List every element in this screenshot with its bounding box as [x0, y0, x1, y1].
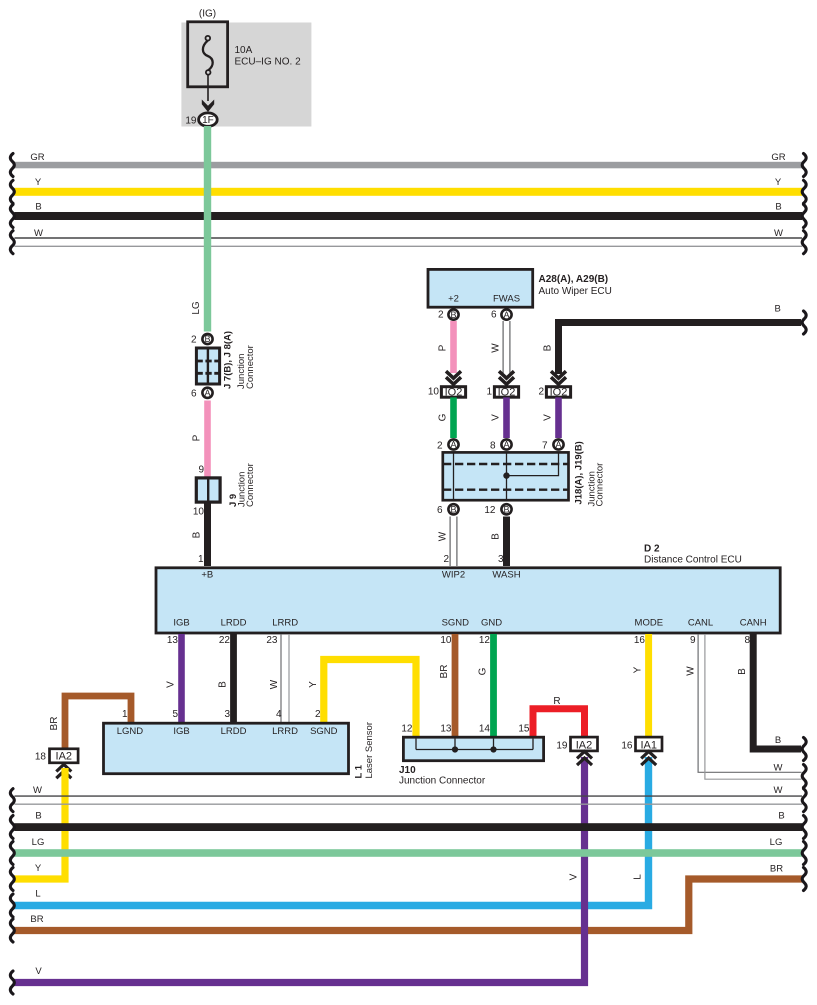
svg-text:B: B — [450, 505, 456, 515]
junction connector J9 — [196, 478, 220, 502]
svg-text:G: G — [478, 667, 489, 675]
wire V violet IGB to L1 — [178, 634, 185, 723]
svg-text:Y: Y — [308, 681, 319, 688]
svg-text:GND: GND — [481, 618, 502, 629]
svg-text:A28(A), A29(B): A28(A), A29(B) — [539, 274, 609, 285]
svg-text:Connector: Connector — [245, 345, 256, 389]
svg-text:A: A — [503, 310, 509, 320]
svg-text:B: B — [737, 668, 748, 675]
svg-text:A: A — [555, 440, 561, 450]
svg-text:LGND: LGND — [117, 726, 144, 737]
svg-text:2: 2 — [438, 309, 444, 320]
svg-text:W: W — [774, 228, 783, 239]
svg-text:B: B — [450, 310, 456, 320]
svg-text:3: 3 — [498, 554, 504, 565]
svg-text:13: 13 — [167, 635, 179, 646]
node B pin 2 (J7/J8 top) — [202, 334, 212, 344]
svg-text:+B: +B — [201, 570, 213, 581]
svg-text:W: W — [685, 666, 696, 676]
svg-text:BR: BR — [30, 914, 43, 925]
svg-text:L: L — [35, 889, 40, 900]
svg-text:Y: Y — [775, 177, 782, 188]
Auto Wiper ECU A28(A), A29(B) — [428, 269, 533, 307]
break symbols right bottom — [802, 789, 806, 891]
svg-text:10: 10 — [440, 635, 452, 646]
wire W white CANL to right break — [698, 634, 801, 772]
svg-text:19: 19 — [556, 741, 568, 752]
svg-text:B: B — [218, 681, 229, 688]
node B pin 12 — [501, 504, 511, 514]
svg-text:W: W — [269, 679, 280, 689]
break symbols left bottom — [10, 789, 14, 994]
svg-text:V: V — [166, 681, 177, 688]
svg-text:12: 12 — [484, 505, 496, 516]
svg-text:D 2: D 2 — [644, 544, 660, 555]
node B pin 2 (+2) — [448, 310, 458, 320]
svg-text:13: 13 — [440, 723, 452, 734]
svg-text:1F: 1F — [202, 115, 214, 126]
bus LG (bottom) — [15, 849, 803, 857]
svg-text:1: 1 — [122, 709, 128, 720]
svg-text:V: V — [569, 873, 580, 880]
junction connector J18(A), J19(B) — [443, 452, 569, 500]
svg-text:B: B — [491, 533, 502, 540]
wire R red J10 pin 15 to IA2(19) — [533, 709, 585, 738]
svg-text:22: 22 — [219, 635, 231, 646]
svg-text:SGND: SGND — [442, 618, 470, 629]
svg-text:W: W — [774, 785, 783, 796]
wire G green IO2 to J18 — [450, 397, 457, 438]
svg-text:B: B — [35, 811, 41, 822]
svg-text:G: G — [438, 413, 449, 421]
svg-text:BR: BR — [49, 717, 60, 731]
svg-text:2: 2 — [437, 440, 443, 451]
svg-text:IA2: IA2 — [56, 751, 73, 763]
wire B black from right break — [559, 323, 802, 375]
svg-text:WASH: WASH — [492, 570, 520, 581]
svg-text:5: 5 — [172, 709, 178, 720]
svg-text:GR: GR — [771, 152, 785, 163]
break symbols right top — [802, 154, 806, 788]
svg-text:W: W — [34, 228, 43, 239]
svg-text:7: 7 — [542, 440, 548, 451]
svg-text:IGB: IGB — [173, 726, 189, 737]
svg-text:J 7(B), J 8(A): J 7(B), J 8(A) — [223, 331, 234, 389]
svg-text:6: 6 — [437, 505, 443, 516]
svg-text:V: V — [491, 414, 502, 421]
svg-text:18: 18 — [35, 751, 47, 762]
svg-text:LRDD: LRDD — [221, 618, 247, 629]
svg-text:15: 15 — [518, 723, 530, 734]
svg-text:IGB: IGB — [173, 618, 189, 629]
svg-text:CANL: CANL — [688, 618, 713, 629]
node A pin 6 (FWAS) — [501, 310, 511, 320]
svg-text:Y: Y — [633, 666, 644, 673]
svg-text:J10: J10 — [399, 765, 416, 776]
wire fuse to 1F with arrow — [207, 75, 209, 101]
svg-text:B: B — [775, 735, 781, 746]
svg-text:GR: GR — [30, 152, 44, 163]
svg-text:4: 4 — [276, 709, 282, 720]
svg-text:A: A — [503, 440, 509, 450]
svg-text:10A: 10A — [235, 45, 253, 56]
node A pin 6 (J7/J8 bottom) — [202, 388, 212, 398]
svg-text:23: 23 — [266, 635, 278, 646]
svg-text:B: B — [778, 811, 784, 822]
svg-text:Y: Y — [35, 177, 42, 188]
svg-text:16: 16 — [634, 635, 646, 646]
bus B (bottom) — [15, 823, 803, 831]
svg-text:R: R — [553, 696, 560, 707]
wire W white LRRD to L1 — [280, 634, 282, 723]
wire W white to WIP2 — [449, 517, 451, 567]
svg-text:CANH: CANH — [740, 618, 767, 629]
svg-text:P: P — [192, 434, 203, 441]
svg-text:B: B — [775, 202, 781, 213]
connector IO2 pin 2 with arrows — [546, 371, 570, 398]
svg-text:BR: BR — [439, 665, 450, 679]
wire W white from FWAS — [502, 321, 504, 373]
node B pin 6 — [448, 504, 458, 514]
svg-text:9: 9 — [690, 635, 696, 646]
svg-text:A: A — [204, 388, 210, 398]
svg-text:LG: LG — [32, 837, 45, 848]
svg-text:6: 6 — [191, 389, 197, 400]
svg-text:W: W — [774, 763, 783, 774]
svg-text:FWAS: FWAS — [493, 294, 520, 305]
connector 1F pin 19 — [199, 113, 218, 126]
svg-text:6: 6 — [491, 309, 497, 320]
svg-text:B: B — [35, 202, 41, 213]
svg-text:B: B — [204, 334, 210, 344]
svg-text:BR: BR — [770, 864, 783, 875]
svg-text:9: 9 — [198, 465, 204, 476]
wire BR brown SGND to J10 pin 13 — [452, 634, 459, 738]
svg-text:W: W — [438, 531, 449, 541]
wire Y yellow MODE to IA1 — [645, 634, 652, 738]
wire LG vertical from fuse — [204, 126, 211, 332]
svg-text:12: 12 — [401, 723, 413, 734]
svg-text:LRDD: LRDD — [221, 726, 247, 737]
svg-text:MODE: MODE — [635, 618, 664, 629]
bus W (top, white wire double line) — [15, 237, 803, 239]
wire P pink to J9 — [204, 401, 211, 478]
svg-text:3: 3 — [224, 709, 230, 720]
node A pin 7 — [553, 439, 563, 449]
svg-text:10: 10 — [428, 387, 440, 398]
svg-text:B: B — [192, 531, 203, 538]
svg-text:1: 1 — [486, 387, 492, 398]
svg-text:A: A — [450, 440, 456, 450]
svg-text:B: B — [775, 304, 781, 315]
wire BR brown bus with elbow to right break — [14, 879, 802, 931]
svg-text:V: V — [35, 966, 42, 977]
svg-text:ECU–IG NO. 2: ECU–IG NO. 2 — [235, 56, 302, 67]
fuse F1 10A ECU-IG NO.2 — [188, 22, 228, 87]
svg-text:Junction Connector: Junction Connector — [399, 776, 486, 787]
svg-text:14: 14 — [479, 723, 491, 734]
svg-text:L: L — [633, 874, 644, 880]
svg-text:B: B — [503, 505, 509, 515]
wire G green GND to J10 pin 14 — [490, 634, 497, 738]
svg-text:12: 12 — [479, 635, 491, 646]
bus Y (top) — [15, 188, 803, 196]
wire B black to WASH — [503, 517, 510, 567]
svg-text:2: 2 — [538, 387, 544, 398]
node A pin 2 — [448, 439, 458, 449]
svg-text:8: 8 — [744, 635, 750, 646]
sensor L1 Laser Sensor — [104, 723, 349, 774]
svg-text:LRRD: LRRD — [272, 618, 298, 629]
junction connector J7(B), J8(A) — [196, 348, 219, 384]
svg-text:J18(A), J19(B): J18(A), J19(B) — [573, 441, 584, 504]
connector IO2 pin 10 with arrows — [441, 371, 465, 398]
svg-text:SGND: SGND — [310, 726, 338, 737]
connector IO2 pin 1 with arrows — [494, 371, 518, 398]
svg-text:LG: LG — [770, 837, 783, 848]
svg-text:2: 2 — [315, 709, 321, 720]
wire P pink from +2 — [450, 321, 457, 373]
svg-text:16: 16 — [621, 741, 633, 752]
bus W (bottom) — [15, 795, 803, 797]
fuse block shaded area — [181, 23, 311, 127]
svg-text:Y: Y — [35, 863, 42, 874]
svg-text:P: P — [438, 344, 449, 351]
svg-text:W: W — [33, 785, 42, 796]
node A pin 8 — [501, 439, 511, 449]
svg-text:W: W — [491, 343, 502, 353]
svg-text:(IG): (IG) — [199, 9, 216, 20]
svg-text:Connector: Connector — [245, 463, 256, 507]
wire B black LRDD to L1 — [230, 634, 237, 723]
svg-text:2: 2 — [191, 335, 197, 346]
svg-text:1: 1 — [198, 554, 204, 565]
bus GR (top) — [15, 162, 803, 169]
svg-text:2: 2 — [443, 554, 449, 565]
wire V violet IO2 to J18 (pin 7) — [555, 397, 562, 438]
svg-text:WIP2: WIP2 — [442, 570, 465, 581]
wire V violet IA2(19) down to V bus — [14, 757, 585, 983]
wire Y yellow L1 SGND to J10 pin 12 — [324, 660, 416, 739]
svg-text:LRRD: LRRD — [272, 726, 298, 737]
svg-text:B: B — [543, 344, 554, 351]
wire V violet IO2 to J18 (pin 8) — [503, 397, 510, 438]
svg-text:Laser Sensor: Laser Sensor — [364, 722, 375, 779]
svg-text:LG: LG — [191, 301, 202, 315]
wire B black CANH to right break — [753, 634, 801, 749]
svg-text:10: 10 — [193, 507, 205, 518]
wire L cyan IA1 down to L bus — [14, 757, 649, 906]
svg-text:8: 8 — [490, 440, 496, 451]
svg-text:Distance Control ECU: Distance Control ECU — [644, 555, 742, 566]
wire BR brown L1 LGND to IA2(18) — [65, 696, 131, 749]
svg-text:V: V — [543, 414, 554, 421]
svg-text:Auto Wiper ECU: Auto Wiper ECU — [539, 286, 612, 297]
svg-text:+2: +2 — [448, 294, 459, 305]
svg-text:Connector: Connector — [595, 463, 606, 507]
wire Y yellow IA2(18) down to Y bus — [14, 768, 65, 879]
bus B (top) — [15, 212, 803, 220]
break symbols left top — [10, 154, 14, 254]
svg-text:19: 19 — [185, 115, 197, 126]
